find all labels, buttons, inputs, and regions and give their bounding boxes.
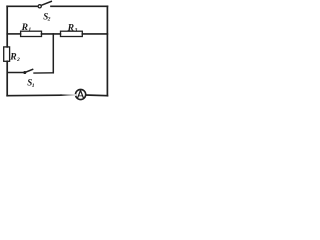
- svg-text:2: 2: [47, 17, 51, 23]
- switch S2 pivot circle: [38, 5, 41, 8]
- resistor R2 body: [4, 47, 10, 61]
- svg-text:R: R: [21, 22, 29, 33]
- wire bottom edge left segment: [7, 94, 61, 97]
- wire S1 branch left segment: [7, 72, 23, 74]
- ammeter A1 circle: [76, 89, 86, 99]
- wire left edge upper segment: [6, 6, 8, 47]
- resistor R3 body: [61, 31, 83, 36]
- wire between R1 and R3: [42, 33, 61, 35]
- switch S1 blade: [25, 69, 33, 72]
- wire top edge left segment: [7, 5, 37, 7]
- svg-text:R: R: [67, 22, 75, 33]
- wire top edge right segment: [51, 5, 107, 7]
- switch S1 pivot dot: [24, 71, 26, 73]
- wire bottom edge right segment: [86, 94, 108, 97]
- label A inside ammeter (drawn glyph): [78, 90, 84, 98]
- wire right edge: [106, 6, 108, 95]
- svg-text:1: 1: [28, 27, 31, 33]
- svg-text:1: 1: [32, 83, 35, 89]
- wire S1 branch right segment: [34, 72, 53, 74]
- svg-text:2: 2: [16, 57, 20, 63]
- wire middle horizontal line left of R1: [7, 33, 20, 35]
- wire right of R3 to right edge: [82, 33, 107, 35]
- wire bottom edge faded segment before ammeter: [61, 94, 75, 96]
- resistor R1 body: [21, 31, 42, 36]
- wire left edge lower segment: [6, 61, 8, 95]
- wire junction vertical between R1 and R3 down to S1 branch: [52, 34, 54, 73]
- switch S2 blade: [41, 1, 51, 5]
- svg-text:3: 3: [74, 28, 78, 34]
